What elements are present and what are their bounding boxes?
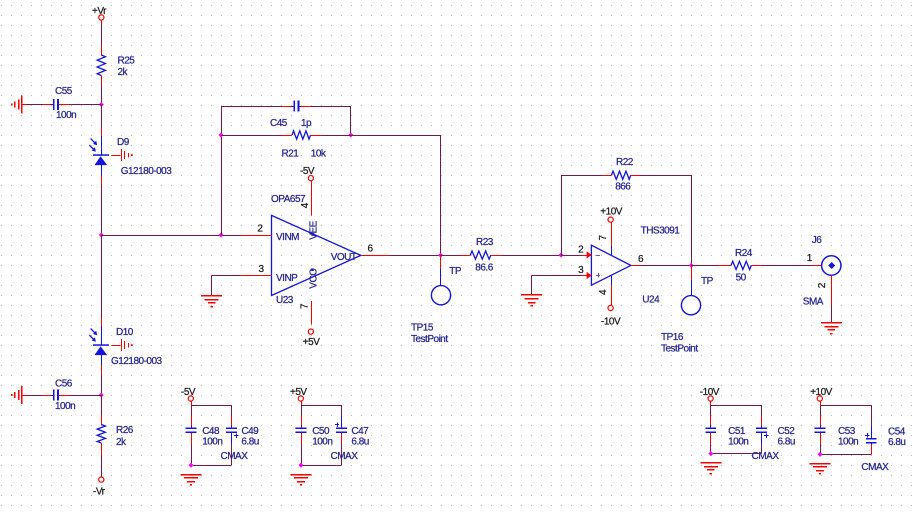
svg-text:D10: D10 <box>116 327 134 338</box>
svg-text:J6: J6 <box>812 235 823 246</box>
svg-text:THS3091: THS3091 <box>641 226 681 237</box>
svg-text:-10V: -10V <box>601 316 621 327</box>
svg-text:R26: R26 <box>116 425 134 436</box>
svg-text:100n: 100n <box>728 436 748 447</box>
svg-text:1p: 1p <box>301 118 312 129</box>
svg-text:6.8u: 6.8u <box>241 436 258 447</box>
svg-text:C55: C55 <box>55 86 73 97</box>
svg-text:R22: R22 <box>616 157 634 168</box>
svg-text:866: 866 <box>615 182 631 193</box>
svg-text:VINM: VINM <box>276 232 299 243</box>
svg-text:VINP: VINP <box>276 273 298 284</box>
svg-text:C56: C56 <box>55 379 73 390</box>
svg-text:U24: U24 <box>642 295 660 306</box>
svg-text:-Vr: -Vr <box>93 487 106 498</box>
svg-text:TestPoint: TestPoint <box>661 344 698 355</box>
svg-text:VEE: VEE <box>309 220 320 239</box>
svg-text:C45: C45 <box>270 118 288 129</box>
svg-text:+5V: +5V <box>303 337 320 348</box>
svg-text:-10V: -10V <box>700 387 720 398</box>
svg-text:100n: 100n <box>55 401 75 412</box>
svg-text:G12180-003: G12180-003 <box>111 356 163 367</box>
svg-text:TP16: TP16 <box>661 332 684 343</box>
svg-text:-5V: -5V <box>181 387 196 398</box>
svg-text:OPA657: OPA657 <box>271 194 306 205</box>
svg-text:G12180-003: G12180-003 <box>121 166 173 177</box>
svg-text:100n: 100n <box>202 436 222 447</box>
svg-text:U23: U23 <box>276 295 294 306</box>
svg-text:R25: R25 <box>118 56 136 67</box>
svg-text:50: 50 <box>736 273 747 284</box>
svg-text:CMAX: CMAX <box>221 451 249 462</box>
svg-text:10k: 10k <box>311 149 327 160</box>
svg-text:VCC: VCC <box>309 269 320 289</box>
svg-text:SMA: SMA <box>803 297 824 308</box>
svg-text:2k: 2k <box>116 437 127 448</box>
svg-text:TestPoint: TestPoint <box>411 334 448 345</box>
svg-text:R24: R24 <box>735 248 753 259</box>
svg-text:R21: R21 <box>282 149 300 160</box>
svg-text:6.8u: 6.8u <box>351 436 368 447</box>
svg-text:CMAX: CMAX <box>861 462 889 473</box>
svg-text:+5V: +5V <box>290 387 307 398</box>
svg-text:+10V: +10V <box>810 387 832 398</box>
svg-text:TP15: TP15 <box>411 323 434 334</box>
svg-text:2k: 2k <box>118 67 129 78</box>
svg-text:100n: 100n <box>838 436 858 447</box>
svg-text:100n: 100n <box>56 110 76 121</box>
svg-text:D9: D9 <box>117 137 130 148</box>
svg-text:+10V: +10V <box>600 207 622 218</box>
svg-text:86.6: 86.6 <box>475 263 493 274</box>
svg-text:TP: TP <box>449 266 462 277</box>
svg-text:6.8u: 6.8u <box>778 436 795 447</box>
svg-text:CMAX: CMAX <box>331 451 359 462</box>
svg-text:VOUT: VOUT <box>331 252 357 263</box>
svg-text:CMAX: CMAX <box>752 451 780 462</box>
svg-text:R23: R23 <box>476 237 494 248</box>
svg-text:100n: 100n <box>312 436 332 447</box>
svg-text:TP: TP <box>701 276 714 287</box>
svg-text:-5V: -5V <box>300 166 315 177</box>
svg-text:6.8u: 6.8u <box>888 437 905 448</box>
